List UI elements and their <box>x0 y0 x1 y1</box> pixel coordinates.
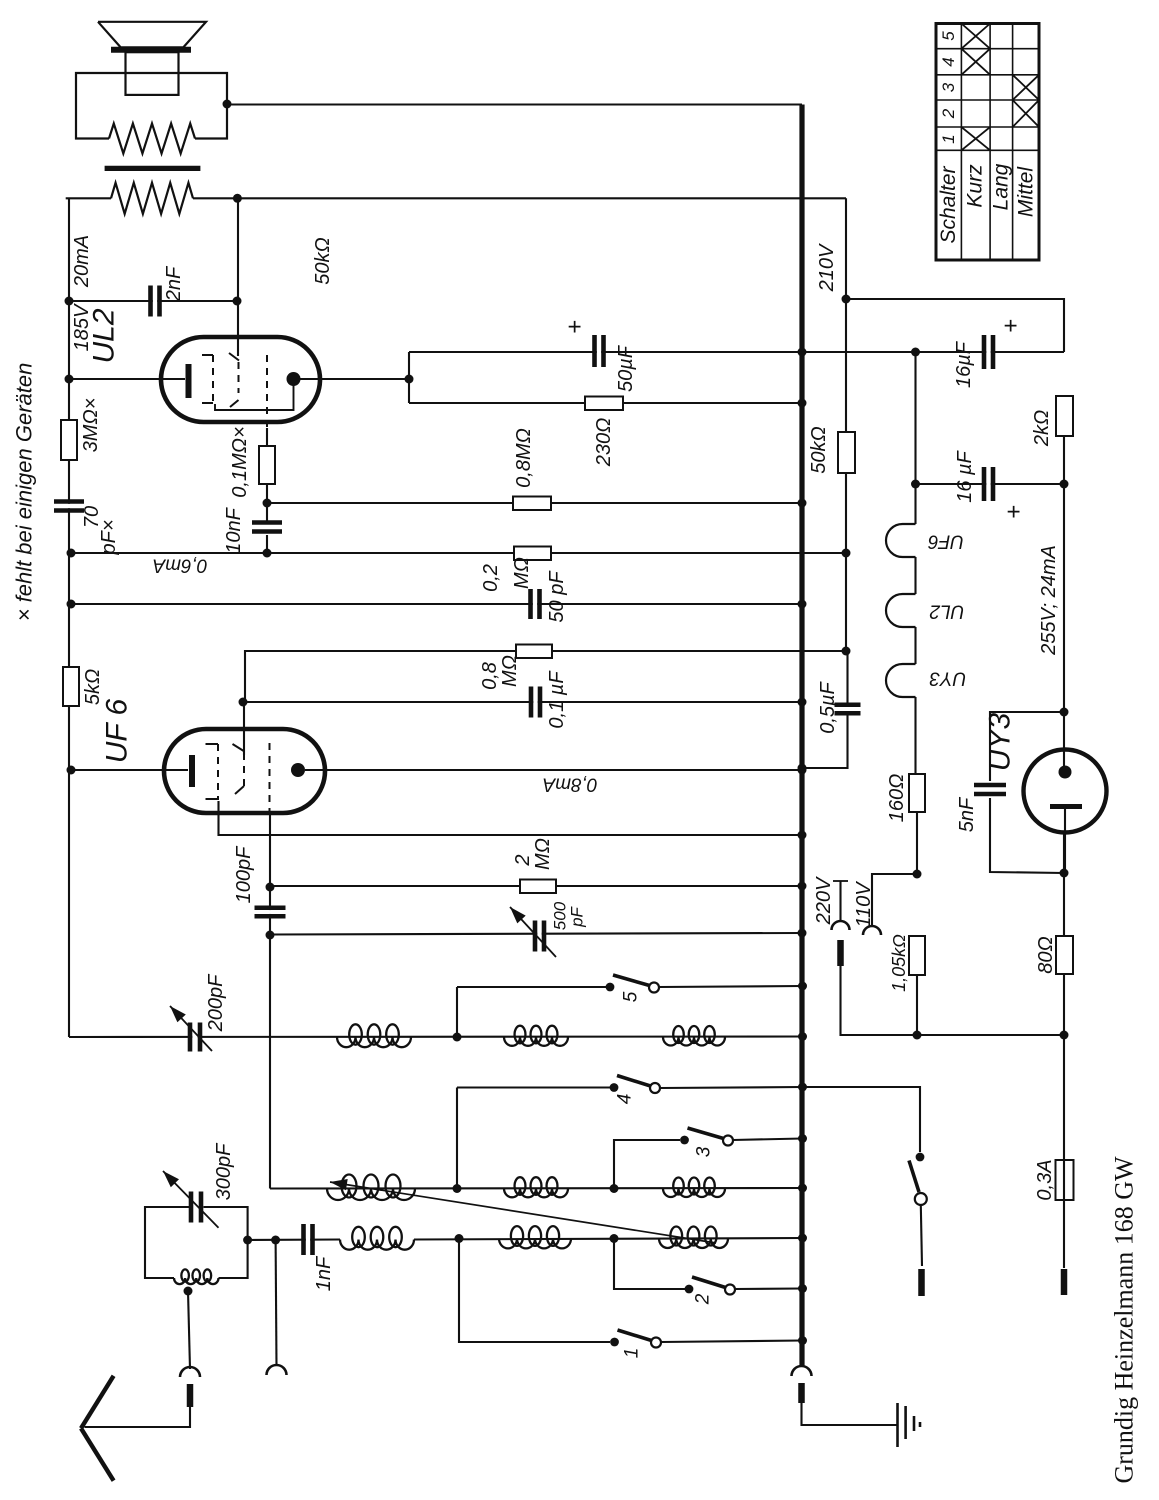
svg-text:4: 4 <box>615 1094 636 1105</box>
label plus a <box>998 319 1025 333</box>
label 0.8M a <box>513 428 535 488</box>
wire switch down <box>921 1205 922 1266</box>
UF6 cathode <box>189 755 195 787</box>
node UF6 cathode rail <box>67 766 76 775</box>
label 110V <box>853 881 875 928</box>
label 80 <box>1035 936 1057 973</box>
svg-text:0,1MΩ×: 0,1MΩ× <box>229 426 251 497</box>
resistor 50k <box>838 432 855 473</box>
wire antenna2 drop <box>275 1240 278 1366</box>
svg-text:+: + <box>1001 505 1028 519</box>
node rowD sw45 <box>453 1184 462 1193</box>
UF6 cathode wire <box>69 769 188 771</box>
mains switch <box>909 1153 927 1205</box>
wire row 934 <box>270 933 802 935</box>
wire sw4 riser <box>456 1088 458 1189</box>
wire sw5 riser <box>456 987 458 1037</box>
svg-text:0,1 µF: 0,1 µF <box>546 670 568 729</box>
resistor 5k <box>63 667 79 706</box>
label 0.8mA <box>543 774 598 795</box>
label 2nF <box>163 265 185 302</box>
resistor 160 <box>909 774 925 812</box>
svg-text:Grundig Heinzelmann 168 GW: Grundig Heinzelmann 168 GW <box>1110 1156 1139 1484</box>
svg-text:16µF: 16µF <box>953 340 975 388</box>
capacitor 50uF <box>595 335 604 367</box>
capacitor 200pF var <box>170 1006 212 1052</box>
wire row 702 <box>243 701 802 703</box>
resistor 0.1M <box>259 446 275 484</box>
wire row 651 <box>245 651 846 702</box>
svg-text:UL2: UL2 <box>929 601 964 622</box>
svg-text:MΩ: MΩ <box>511 557 533 589</box>
svg-text:1: 1 <box>939 134 958 143</box>
svg-text:MΩ: MΩ <box>499 655 521 687</box>
label UL2 <box>88 308 121 363</box>
label 230 <box>593 418 615 468</box>
svg-text:50kΩ: 50kΩ <box>312 237 334 284</box>
label 200pF <box>205 973 227 1032</box>
svg-text:80Ω: 80Ω <box>1035 936 1057 973</box>
wire row 484 <box>916 483 1065 485</box>
label 20mA <box>71 235 93 288</box>
coil F2 <box>499 1226 571 1248</box>
node row484 rail <box>1060 480 1069 489</box>
wire speaker-bus <box>227 103 802 105</box>
svg-text:UF6: UF6 <box>928 531 964 552</box>
UL2 cathode <box>186 364 192 398</box>
svg-text:3MΩ×: 3MΩ× <box>80 398 102 453</box>
svg-text:UY3: UY3 <box>929 668 966 689</box>
svg-text:20mA: 20mA <box>71 235 93 288</box>
svg-text:50 pF: 50 pF <box>546 570 568 623</box>
svg-text:+: + <box>562 320 589 334</box>
coil F1 <box>340 1227 414 1250</box>
node g3 row886 <box>266 883 275 892</box>
wire UF6 g1 row <box>219 801 803 835</box>
resistor 230 <box>585 397 623 411</box>
resistor 0.8M a <box>513 497 551 511</box>
wire primary left <box>66 197 111 199</box>
capacitor 0.1uF <box>531 687 540 718</box>
wire row F mid <box>414 1238 803 1240</box>
node sw3 bus <box>798 1134 807 1143</box>
svg-text:2nF: 2nF <box>163 265 185 302</box>
node row604 bus <box>798 600 807 609</box>
node rowA sw5 <box>453 1033 462 1042</box>
capacitor 0.5uF <box>835 705 861 714</box>
node primary right <box>233 194 242 203</box>
node row886 bus <box>798 882 807 891</box>
tank loop <box>145 1207 248 1278</box>
label 2k <box>1031 410 1053 447</box>
UF6 grid1 <box>206 744 219 800</box>
wire 1.05k bottom <box>916 975 918 1035</box>
svg-text:50µF: 50µF <box>615 344 637 392</box>
capacitor 5nF bracket <box>990 712 1064 873</box>
svg-text:0,8MΩ: 0,8MΩ <box>513 428 535 488</box>
heater UF6 bump <box>886 524 915 557</box>
label 16uF b <box>954 449 976 502</box>
node fuse top <box>1060 1031 1069 1040</box>
node row702 bus <box>798 698 807 707</box>
node row503 bus <box>798 499 807 508</box>
label 16uF a <box>953 340 975 388</box>
fuse 0.3A <box>1056 1160 1074 1200</box>
wire heater mid2 <box>914 627 916 664</box>
wire 210V to right rail <box>846 299 1064 352</box>
svg-text:Lang: Lang <box>990 163 1013 210</box>
wire row 503 <box>267 502 800 504</box>
label 210V <box>816 243 838 292</box>
resistor 2M <box>520 880 556 894</box>
heater UL2 bump <box>886 594 915 627</box>
node 0.5uF bus <box>798 764 807 773</box>
svg-text:0,2: 0,2 <box>480 564 502 592</box>
wire primary right <box>193 197 846 199</box>
label 5nF <box>956 796 978 832</box>
svg-text:5nF: 5nF <box>956 796 978 832</box>
resistor 80 <box>1056 936 1073 974</box>
title <box>1110 1156 1139 1484</box>
label UF6 <box>101 698 134 763</box>
wire plate riser <box>408 352 410 403</box>
wire antenna lead <box>188 1291 190 1369</box>
UL2 grid3 <box>266 355 268 432</box>
label 500pF <box>551 901 587 930</box>
svg-text:UY3: UY3 <box>984 713 1017 772</box>
svg-text:2: 2 <box>693 1293 714 1305</box>
UL2 grid2 hooks <box>229 353 239 407</box>
node 5nF top <box>1060 708 1069 717</box>
label 50pF <box>546 570 568 623</box>
node antenna2 tap <box>271 1236 280 1245</box>
UF6 grid3 <box>269 743 271 812</box>
svg-text:5: 5 <box>621 991 642 1002</box>
wire antenna down <box>85 1407 191 1427</box>
svg-text:3: 3 <box>939 82 958 92</box>
capacitor 50pF <box>531 589 540 619</box>
speaker cone <box>98 22 206 50</box>
label 1.05k <box>889 934 909 992</box>
bus pin <box>798 1383 805 1403</box>
wire screen drop UL2 <box>237 198 239 356</box>
wire 50k bottom <box>845 473 847 651</box>
node row352 bus <box>798 348 807 357</box>
node rowF bus <box>798 1234 807 1243</box>
label 160 <box>886 774 908 823</box>
pin fuse <box>1061 1269 1068 1295</box>
node heater top <box>911 348 920 357</box>
label 4 <box>615 1094 636 1105</box>
wire to ground <box>802 1403 898 1425</box>
label 100pF <box>233 845 255 903</box>
node rowF sw2 <box>610 1234 619 1243</box>
wire left rail <box>68 198 70 1037</box>
node row934 bus <box>798 929 807 938</box>
output transformer primary 50k winding <box>111 183 193 214</box>
node g3 row934 <box>266 931 275 940</box>
label heater UF6 <box>928 531 964 552</box>
switch 3 <box>680 1128 733 1146</box>
switch 5 <box>606 975 659 993</box>
svg-text:100pF: 100pF <box>233 845 255 903</box>
antenna socket 1 <box>180 1367 200 1377</box>
UL2 plate <box>287 372 301 386</box>
switch 1 <box>610 1330 661 1348</box>
transformer core <box>105 166 201 171</box>
svg-text:1nF: 1nF <box>313 1255 335 1291</box>
tube UY3 envelope <box>1024 750 1107 833</box>
capacitor 70pF <box>54 502 84 511</box>
output transformer secondary frame <box>76 73 227 139</box>
svg-text:UF 6: UF 6 <box>101 698 134 763</box>
svg-text:255V; 24mA: 255V; 24mA <box>1038 545 1060 656</box>
node row651 210V <box>842 647 851 656</box>
node rowA bus <box>798 1032 807 1041</box>
label plus b <box>1001 505 1028 519</box>
wire row sw1 <box>459 1239 803 1343</box>
wire row sw2 <box>614 1239 803 1290</box>
label 0.5uF <box>817 680 839 733</box>
node sw4 bus <box>798 1083 807 1092</box>
wire row 352 right <box>802 351 916 353</box>
node 185V <box>65 297 74 306</box>
wire 220V down <box>841 966 1065 1035</box>
wire row sw4 <box>457 1087 803 1088</box>
label fuse <box>1034 1159 1056 1200</box>
node sw2 bus <box>798 1284 807 1293</box>
node row553 210V <box>842 549 851 558</box>
capacitor 10nF <box>252 523 282 532</box>
wire 0.5uF top <box>846 651 848 703</box>
socket 220V <box>832 921 850 930</box>
svg-text:0,5µF: 0,5µF <box>817 680 839 733</box>
label 3M <box>80 398 102 453</box>
tank coil <box>174 1269 219 1284</box>
wire row 886 <box>270 885 802 887</box>
label 255V <box>1038 545 1060 656</box>
note fehlt <box>12 363 37 622</box>
wire 110V tap <box>872 874 917 926</box>
coil A3 <box>663 1026 725 1046</box>
pin mains switch <box>918 1269 925 1296</box>
label 300pF <box>213 1142 235 1200</box>
wire bus to switch <box>802 1087 920 1152</box>
wire g3 to 0.1M <box>266 428 268 553</box>
svg-text:0,3A: 0,3A <box>1034 1159 1056 1200</box>
wire row 352 <box>409 351 1064 353</box>
svg-text:0,8mA: 0,8mA <box>543 774 598 795</box>
wire fuse lead <box>1063 1035 1065 1268</box>
wire row 604 <box>71 603 802 605</box>
UF6 grid2 hooks <box>233 744 245 794</box>
label 50k <box>808 426 830 473</box>
label 2M <box>512 838 554 870</box>
wire 210V corner <box>845 198 847 432</box>
resistor 0.8M b <box>516 645 552 659</box>
output transformer secondary winding <box>109 124 195 154</box>
svg-text:4: 4 <box>939 57 958 66</box>
node 0.6mA rail <box>67 549 76 558</box>
node mains junction <box>913 1031 922 1040</box>
node row835 bus <box>798 831 807 840</box>
label 0.6mA <box>153 555 208 576</box>
heater UY3 bump <box>886 664 915 697</box>
capacitor 300pF var <box>163 1171 219 1228</box>
speaker magnet <box>126 52 179 95</box>
wire 160 to tap <box>916 812 918 874</box>
node plate junction <box>405 375 414 384</box>
node rowF sw1 <box>455 1234 464 1243</box>
label 0.1uF <box>546 670 568 729</box>
svg-text:MΩ: MΩ <box>532 838 554 870</box>
wire UF6 screen drop <box>243 702 245 755</box>
node speaker to bus <box>223 100 232 109</box>
svg-text:10nF: 10nF <box>223 506 245 553</box>
coil A1 <box>337 1024 411 1047</box>
wire heater upper <box>914 352 916 524</box>
coil D1 variable <box>327 1175 415 1201</box>
wire row 553 <box>71 552 846 554</box>
switch 2 <box>685 1277 735 1295</box>
capacitor 500pF var <box>510 907 556 957</box>
label 0.8M b <box>479 655 521 690</box>
node 10nF bottom <box>263 549 272 558</box>
node sw1 bus <box>798 1336 807 1345</box>
node rowD sw3 <box>610 1184 619 1193</box>
svg-text:Schalter: Schalter <box>937 165 960 243</box>
wire row 403 <box>409 402 800 404</box>
wire heater lower <box>914 697 916 774</box>
node 110V tap <box>913 870 922 879</box>
wire 80 down <box>1063 974 1065 1035</box>
node row403 bus <box>798 399 807 408</box>
label 185V <box>71 303 93 351</box>
resistor 0.2M <box>514 547 551 561</box>
capacitor 100pF <box>255 908 286 917</box>
svg-text:5: 5 <box>939 31 958 41</box>
capacitor 16uF a <box>984 335 993 369</box>
UL2 cathode wire <box>69 378 185 380</box>
wire UF6 plate row <box>305 769 802 771</box>
wire heater mid1 <box>914 557 916 594</box>
svg-text:160Ω: 160Ω <box>886 774 908 823</box>
label heater UL2 <box>929 601 964 622</box>
node 2nF right <box>233 297 242 306</box>
label 50uF <box>615 344 637 392</box>
tube UF6 envelope <box>164 729 325 813</box>
UL2 grid1 <box>202 355 213 404</box>
coil A2 <box>504 1026 568 1046</box>
label 2 <box>693 1293 714 1305</box>
svg-text:pF: pF <box>568 905 587 927</box>
capacitor 2nF <box>151 286 160 317</box>
svg-text:Kurz: Kurz <box>964 164 987 208</box>
label 0.1M <box>229 426 251 497</box>
svg-text:210V: 210V <box>816 243 838 292</box>
node heater 16uF2 <box>911 480 920 489</box>
label 0.2M <box>480 557 533 592</box>
resistor 2k <box>1056 396 1073 436</box>
antenna pin <box>187 1384 194 1407</box>
pin 220V <box>837 940 844 966</box>
svg-text:220V: 220V <box>813 876 835 925</box>
svg-text:0,8: 0,8 <box>479 662 501 690</box>
svg-text:2kΩ: 2kΩ <box>1031 410 1053 447</box>
coil F3 <box>659 1227 728 1248</box>
wire row D <box>270 1187 803 1190</box>
svg-text:UL2: UL2 <box>88 308 121 363</box>
label heater UY3 <box>929 668 966 689</box>
ground chassis <box>898 1403 921 1447</box>
switch position table <box>936 24 1039 261</box>
node 50pF rail <box>67 600 76 609</box>
UF6 plate <box>291 763 305 777</box>
label 5 <box>621 991 642 1002</box>
socket 110V <box>863 926 881 935</box>
svg-text:50kΩ: 50kΩ <box>808 426 830 473</box>
svg-text:+: + <box>998 319 1025 333</box>
wire UY3 out <box>1063 832 1065 936</box>
svg-text:2: 2 <box>512 854 534 866</box>
label UY3 <box>984 713 1017 772</box>
wire row sw5 <box>457 986 803 987</box>
switch 4 <box>610 1076 660 1094</box>
node UL2 cathode rail <box>65 375 74 384</box>
wire 0.5uF bottom <box>803 715 848 768</box>
svg-text:1,05kΩ: 1,05kΩ <box>889 934 909 992</box>
svg-text:pF×: pF× <box>98 519 120 555</box>
svg-text:2: 2 <box>939 108 958 119</box>
node 0.1M bottom <box>263 499 272 508</box>
node sw5 bus <box>798 982 807 991</box>
capacitor 5nF <box>974 785 1006 794</box>
node 5nF bottom <box>1060 869 1069 878</box>
svg-text:3: 3 <box>694 1146 715 1157</box>
label 50kOhm transformer <box>312 237 334 284</box>
wire UF6 g3 drop <box>269 812 271 1189</box>
label 1 <box>622 1348 643 1359</box>
gang line with arrow <box>330 1179 716 1243</box>
coil D3 <box>663 1177 725 1197</box>
capacitor 1nF <box>304 1224 313 1255</box>
node tank antenna tap <box>184 1287 193 1296</box>
label 5k <box>82 669 104 705</box>
UL2 internal wire <box>215 383 294 410</box>
wire right rail <box>1063 436 1065 768</box>
wire 220V lead <box>833 881 848 921</box>
svg-text:300pF: 300pF <box>213 1142 235 1200</box>
node row770 bus <box>798 766 807 775</box>
resistor 1.05k <box>909 936 925 975</box>
node 210V branch <box>842 295 851 304</box>
bus chassis <box>799 105 804 1368</box>
node tank out <box>243 1236 252 1245</box>
antenna socket 2 <box>267 1365 287 1375</box>
wire row sw3 <box>614 1139 803 1189</box>
svg-text:0,6mA: 0,6mA <box>153 555 208 576</box>
UY3 anode <box>1059 766 1072 779</box>
label 70pF <box>81 506 120 556</box>
coil D2 <box>504 1177 568 1197</box>
tube UL2 envelope <box>161 337 320 422</box>
label 1nF <box>313 1255 335 1291</box>
label 3 <box>694 1146 715 1157</box>
node row702 left <box>239 698 248 707</box>
UY3 internal wire <box>1064 806 1066 874</box>
wire 2nF row <box>69 300 237 302</box>
wire row F left <box>248 1238 340 1241</box>
